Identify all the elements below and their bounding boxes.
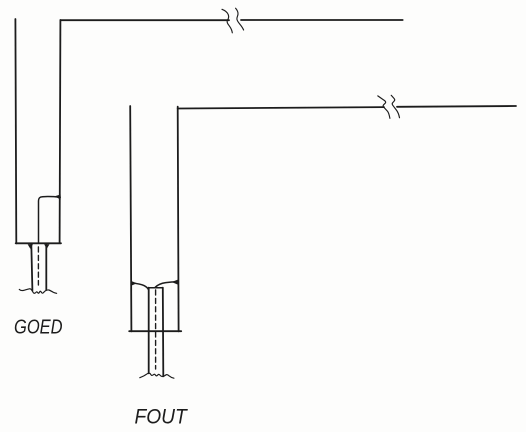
svg-text:GOED: GOED	[14, 316, 63, 338]
svg-text:FOUT: FOUT	[135, 404, 189, 428]
